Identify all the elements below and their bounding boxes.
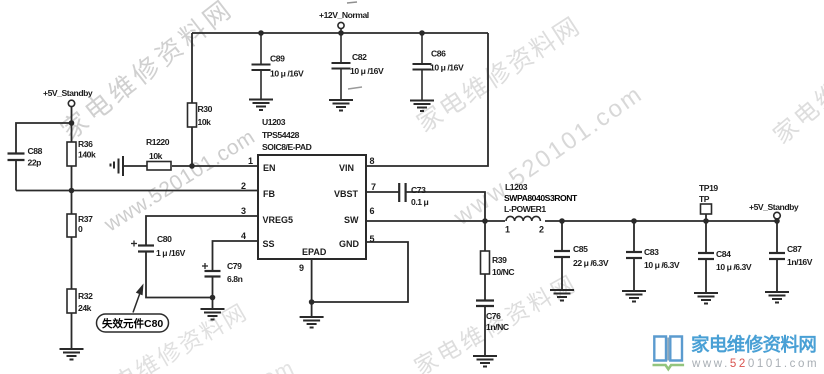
svg-text:1n/16V: 1n/16V (787, 257, 813, 267)
watermark 家电维修资料网 top-left (55, 0, 239, 146)
watermark www tail bottom-left (117, 355, 299, 374)
svg-text:C76: C76 (486, 311, 501, 321)
svg-text:6: 6 (370, 206, 375, 216)
capacitor C82 (332, 33, 384, 100)
svg-text:22 μ /6.3V: 22 μ /6.3V (573, 258, 609, 268)
watermark 家电维修资料网 bottom-center (410, 269, 582, 374)
svg-text:SS: SS (263, 239, 275, 249)
svg-text:1n/NC: 1n/NC (486, 322, 509, 332)
junction node C89 rail (258, 30, 264, 36)
wire C87 top (776, 221, 778, 253)
wire R30 column top (191, 33, 193, 103)
svg-text:EN: EN (263, 163, 276, 173)
junction node C87/+5V (774, 218, 780, 224)
wire C85 top (561, 221, 563, 251)
ground under EPAD (300, 317, 324, 328)
svg-text:10 μ /6.3V: 10 μ /6.3V (716, 262, 752, 272)
junction node FB (69, 188, 75, 194)
junction node C85 (559, 218, 565, 224)
wire R32 to ground (71, 313, 73, 349)
svg-text:家电维修资料网: 家电维修资料网 (691, 334, 816, 355)
svg-text:22p: 22p (28, 158, 42, 168)
wire C88 bottom branch (15, 161, 17, 191)
watermark 家电维修资料网 top-right (412, 12, 586, 138)
wire EPAD pin9 (311, 259, 313, 302)
svg-text:FB: FB (263, 189, 275, 199)
svg-text:家电维修资料网: 家电维修资料网 (88, 298, 253, 374)
wire R39 to C76 (484, 274, 486, 300)
resistor R36 (67, 139, 96, 166)
svg-text:VIN: VIN (339, 163, 354, 173)
svg-text:140k: 140k (78, 150, 96, 160)
wire output rail after inductor (545, 220, 777, 222)
svg-text:SW: SW (344, 215, 359, 225)
wire SW node to R39 (484, 221, 486, 251)
svg-text:SOIC8/E-PAD: SOIC8/E-PAD (262, 142, 312, 152)
wire rail drop to pin8 VIN (366, 33, 488, 166)
svg-text:VREG5: VREG5 (263, 215, 294, 225)
svg-text:+5V_Standby: +5V_Standby (43, 88, 93, 98)
svg-text:10 μ /16V: 10 μ /16V (430, 63, 464, 73)
svg-text:C83: C83 (644, 247, 659, 257)
rotated ground at R1220 (111, 156, 124, 176)
wire C85 to ground (561, 258, 563, 291)
wire node to ground under C79 (212, 298, 214, 310)
capacitor C73 (399, 183, 428, 207)
wire SW line pin6 (366, 220, 505, 222)
capacitor C89 (252, 33, 304, 100)
capacitor C88 (8, 146, 43, 168)
svg-text:0: 0 (78, 224, 83, 234)
capacitor C84 (698, 249, 752, 272)
resistor R1220 (146, 137, 171, 170)
inductor L1203 (504, 182, 578, 235)
svg-text:2: 2 (539, 225, 544, 235)
wire TP19 to rail (705, 214, 707, 221)
svg-text:+12V_Normal: +12V_Normal (319, 10, 369, 20)
wire C84 to ground (705, 260, 707, 294)
svg-text:10 μ /6.3V: 10 μ /6.3V (644, 260, 680, 270)
junction node C79/gnd (210, 295, 216, 301)
resistor R37 (67, 214, 93, 237)
ground under C85 (550, 290, 574, 301)
svg-text:C85: C85 (573, 244, 588, 254)
svg-text:家电维修资料网: 家电维修资料网 (769, 7, 824, 149)
svg-text:3: 3 (241, 206, 246, 216)
svg-text:TPS54428: TPS54428 (262, 130, 300, 140)
svg-text:R1220: R1220 (146, 137, 170, 147)
ground under C89 (249, 100, 273, 111)
svg-text:L-POWER1: L-POWER1 (504, 204, 546, 214)
ground under C87 (765, 292, 789, 303)
svg-text:R39: R39 (492, 255, 507, 265)
junction node C84/TP (703, 218, 709, 224)
watermark www.520101.com mid-right (448, 80, 648, 231)
junction node C88 top (69, 120, 75, 126)
svg-text:4: 4 (241, 231, 246, 241)
capacitor C80 (131, 234, 186, 258)
svg-text:C80: C80 (157, 234, 172, 244)
wire C79 bottom (212, 277, 214, 298)
svg-text:+5V_Standby: +5V_Standby (749, 202, 799, 212)
svg-text:R37: R37 (78, 214, 93, 224)
svg-text:10k: 10k (198, 117, 212, 127)
wire pin9 node to ground (311, 302, 313, 317)
svg-text:1: 1 (505, 225, 510, 235)
capacitor C87 (769, 244, 813, 267)
power terminal +5V_Standby left (43, 88, 93, 107)
wire C76 to ground (484, 307, 486, 357)
junction node R30/EN (189, 163, 195, 169)
wire +12V top rail (192, 32, 488, 34)
svg-text:R30: R30 (198, 104, 213, 114)
junction node pin9/gnd (309, 299, 315, 305)
junction node SW/R39 (482, 218, 488, 224)
wire R36 to R37 (71, 166, 73, 214)
svg-text:L1203: L1203 (505, 182, 528, 192)
svg-text:家电维修资料网: 家电维修资料网 (412, 12, 586, 138)
watermark 家电 right-edge (769, 7, 824, 149)
svg-text:www.520101.com: www.520101.com (100, 125, 260, 237)
callout bubble 失效元件C80 (97, 284, 169, 333)
svg-text:C73: C73 (411, 185, 426, 195)
svg-text:24k: 24k (78, 303, 92, 313)
svg-text:2: 2 (241, 181, 246, 191)
svg-text:7: 7 (371, 182, 376, 192)
svg-text:C89: C89 (270, 54, 285, 64)
svg-text:C82: C82 (352, 52, 367, 62)
wire VREG5 line (146, 216, 258, 245)
svg-text:SWPA8040S3RONT: SWPA8040S3RONT (504, 193, 578, 203)
logo book icon (653, 337, 685, 370)
svg-text:家电维修资料网: 家电维修资料网 (55, 0, 239, 146)
svg-text:C79: C79 (227, 261, 242, 271)
svg-text:10 μ /16V: 10 μ /16V (270, 69, 304, 79)
wire C84 top (705, 221, 707, 253)
svg-text:www.520101.com: www.520101.com (691, 358, 819, 370)
wire R37 to R32 (71, 237, 73, 289)
capacitor C86 (413, 33, 464, 101)
svg-text:9: 9 (299, 263, 304, 273)
capacitor C79 (202, 261, 243, 284)
watermark www.520101.com left (100, 125, 260, 237)
junction node C83 (631, 218, 637, 224)
svg-text:1 μ /16V: 1 μ /16V (156, 248, 186, 258)
wire SS line (213, 241, 259, 271)
resistor R39 (481, 251, 515, 277)
scan smudge top edge (347, 2, 357, 3)
op-amp U1203 IC body (258, 117, 366, 259)
wire R30 column bottom (191, 127, 193, 166)
ground under R32 (60, 349, 84, 360)
watermark 家电维修资料网 bottom-left (88, 298, 253, 374)
svg-text:EPAD: EPAD (302, 247, 327, 257)
capacitor C85 (554, 244, 609, 268)
junction node C82 rail (338, 30, 344, 36)
wire C80 bottom (146, 252, 213, 298)
svg-text:C88: C88 (28, 146, 43, 156)
svg-text:5: 5 (370, 234, 375, 244)
test point TP19 (699, 183, 718, 214)
junction node C86 rail (419, 30, 425, 36)
capacitor C83 (626, 247, 680, 270)
wire VBST to C73 (366, 191, 399, 193)
wire FB line (16, 190, 258, 192)
power terminal +12V_Normal (319, 10, 369, 33)
svg-text:GND: GND (339, 239, 360, 249)
ground under C83 (622, 291, 646, 302)
svg-text:10/NC: 10/NC (492, 267, 514, 277)
svg-text:TP: TP (699, 194, 710, 204)
ground under C86 (410, 101, 434, 112)
wire C87 to ground (776, 260, 778, 293)
wire EN line (123, 165, 147, 167)
wire C73 to SW node (406, 192, 485, 221)
svg-text:TP19: TP19 (699, 183, 718, 193)
svg-text:U1203: U1203 (262, 117, 286, 127)
wire C83 top (633, 221, 635, 252)
svg-text:R36: R36 (78, 139, 93, 149)
svg-text:10k: 10k (149, 151, 163, 161)
svg-text:C86: C86 (431, 49, 446, 59)
svg-text:C84: C84 (716, 249, 731, 259)
wire C83 to ground (633, 259, 635, 292)
ground under C84 (694, 293, 718, 304)
scan smudge near C82 (348, 87, 362, 89)
svg-text:6.8n: 6.8n (227, 274, 243, 284)
svg-text:1: 1 (248, 156, 253, 166)
svg-text:C87: C87 (787, 244, 802, 254)
wire R1220 to EN pin1 (172, 165, 258, 167)
wire +5V standby column (71, 107, 73, 142)
wire GND pin5 loop (312, 242, 408, 302)
power terminal +5V_Standby right (749, 202, 799, 221)
svg-text:R32: R32 (78, 291, 93, 301)
svg-text:0.1 μ: 0.1 μ (411, 197, 429, 207)
resistor R32 (67, 289, 93, 313)
capacitor C76 (476, 301, 509, 333)
resistor R30 (188, 103, 213, 127)
wire C88 top branch (16, 123, 72, 153)
svg-text:10 μ /16V: 10 μ /16V (350, 66, 384, 76)
ground under C79 node (201, 309, 225, 320)
svg-text:8: 8 (370, 156, 375, 166)
svg-text:VBST: VBST (334, 189, 359, 199)
ground under C76 (473, 356, 497, 367)
ground under C82 (329, 100, 353, 111)
svg-text:失效元件C80: 失效元件C80 (102, 317, 163, 330)
